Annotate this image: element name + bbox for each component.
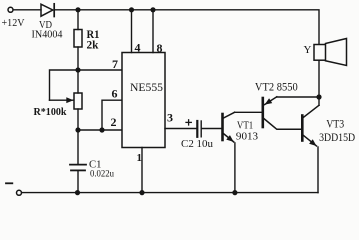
transistor VT1 bbox=[221, 114, 224, 140]
capacitor C1 bbox=[77, 130, 79, 164]
wire VT1 collector to VT2 base bbox=[235, 111, 262, 113]
svg-text:IN4004: IN4004 bbox=[32, 29, 63, 41]
wire VT1 emitter to rail bbox=[234, 143, 236, 193]
node R1 bottom / pin7 bbox=[75, 67, 80, 72]
terminal negative bbox=[17, 190, 22, 195]
label minus bbox=[6, 182, 12, 184]
resistor R1 bbox=[77, 10, 79, 30]
wire +12V top rail bbox=[54, 10, 319, 45]
terminal +12V bbox=[8, 7, 13, 12]
wire VT2 emitter to +12V node bbox=[277, 96, 319, 98]
svg-text:Y: Y bbox=[304, 44, 312, 56]
capacitor C2 bbox=[196, 121, 198, 137]
svg-text:VT1: VT1 bbox=[237, 121, 253, 132]
wire C2 to VT1 base bbox=[201, 128, 221, 130]
wire pin 6 bbox=[102, 100, 122, 130]
node R1 top bbox=[75, 7, 80, 12]
node pin1 rail bbox=[139, 190, 144, 195]
svg-text:VT3: VT3 bbox=[326, 119, 344, 131]
node pin8 rail bbox=[150, 7, 155, 12]
node speaker line bbox=[316, 94, 321, 99]
node pin2 / C1 bbox=[75, 127, 80, 132]
wire pin 3 bbox=[165, 128, 197, 130]
wire bottom rail bbox=[22, 192, 318, 194]
potentiometer R* bbox=[77, 70, 79, 93]
svg-text:+12V: +12V bbox=[2, 17, 25, 29]
wire pin 2 bbox=[78, 129, 122, 131]
svg-text:6: 6 bbox=[112, 86, 118, 100]
svg-text:9013: 9013 bbox=[236, 131, 258, 142]
svg-text:3DD15D: 3DD15D bbox=[319, 132, 355, 144]
svg-text:0.022u: 0.022u bbox=[90, 170, 114, 180]
wiper arrow bbox=[50, 99, 74, 101]
svg-text:7: 7 bbox=[112, 57, 118, 71]
wire terminal to diode anode bbox=[13, 9, 41, 11]
svg-text:4: 4 bbox=[135, 40, 141, 54]
node pin4 rail bbox=[129, 7, 134, 12]
svg-text:2: 2 bbox=[111, 115, 117, 129]
wire speaker to VT3 collector bbox=[318, 60, 320, 105]
svg-text:3: 3 bbox=[167, 111, 173, 125]
svg-text:1: 1 bbox=[137, 152, 143, 164]
transistor VT3 bbox=[301, 116, 304, 141]
IC NE555 bbox=[122, 53, 165, 148]
pin 4 bbox=[131, 10, 133, 53]
pin 8 bbox=[152, 10, 154, 53]
node pin6 stub bbox=[99, 127, 104, 132]
node VT1 emitter rail bbox=[232, 190, 237, 195]
svg-text:VT2 8550: VT2 8550 bbox=[255, 82, 298, 94]
diode VD bbox=[41, 4, 53, 16]
svg-text:C2 10u: C2 10u bbox=[181, 138, 213, 150]
C2 plus sign bbox=[186, 121, 191, 123]
speaker Y bbox=[314, 45, 326, 61]
node C1 rail bbox=[75, 190, 80, 195]
svg-text:8: 8 bbox=[157, 41, 163, 55]
wire pin 7 bbox=[78, 69, 122, 71]
wire VT3 emitter to rail bbox=[317, 147, 319, 193]
svg-text:NE555: NE555 bbox=[130, 80, 163, 94]
svg-text:R*100k: R*100k bbox=[34, 106, 68, 118]
pin 1 bbox=[141, 148, 143, 193]
transistor VT2 bbox=[261, 98, 264, 127]
svg-text:2k: 2k bbox=[87, 40, 100, 52]
wire wiper loop bbox=[50, 70, 79, 100]
